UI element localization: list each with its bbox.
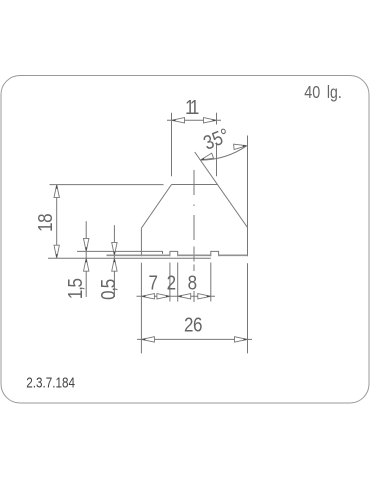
svg-text:40: 40 xyxy=(304,82,320,102)
svg-text:8: 8 xyxy=(188,271,197,294)
svg-text:18: 18 xyxy=(33,214,56,232)
svg-text:lg.: lg. xyxy=(327,82,342,102)
svg-text:1,5: 1,5 xyxy=(63,278,86,299)
svg-text:2: 2 xyxy=(167,271,176,294)
svg-text:0,5: 0,5 xyxy=(96,279,119,300)
svg-text:2.3.7.184: 2.3.7.184 xyxy=(26,374,75,391)
svg-text:26: 26 xyxy=(184,313,202,336)
svg-text:7: 7 xyxy=(148,271,157,294)
